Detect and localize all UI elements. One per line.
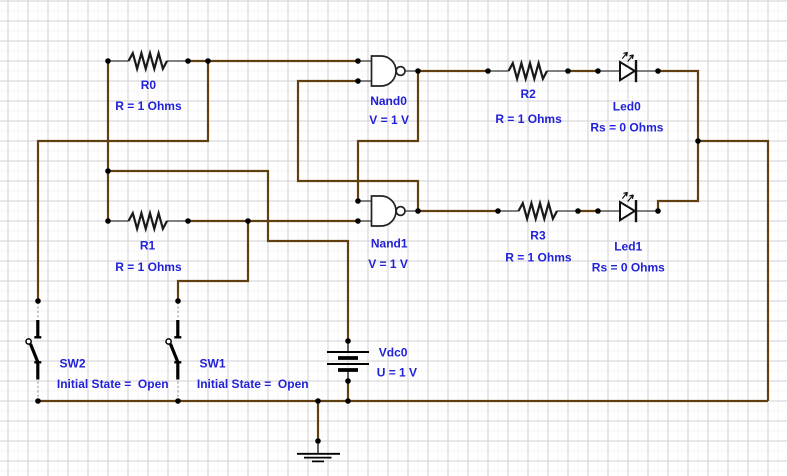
wire R0 right to Nand0 input A bbox=[188, 60, 358, 62]
junction R3 left bbox=[495, 208, 501, 214]
resistor R3 bbox=[498, 203, 578, 219]
svg-text:R = 1 Ohms: R = 1 Ohms bbox=[115, 260, 182, 274]
junction ground node bbox=[315, 438, 321, 444]
resistor R2 bbox=[488, 63, 568, 79]
wire R2 to Led0 bbox=[568, 70, 598, 72]
svg-text:R0: R0 bbox=[141, 78, 157, 92]
nand gate Nand1 bbox=[358, 196, 418, 226]
svg-text:V = 1 V: V = 1 V bbox=[369, 113, 409, 127]
junction Nand0 pin 1 bbox=[355, 58, 361, 64]
junction Led1 cathode bbox=[655, 208, 661, 214]
svg-text:R3: R3 bbox=[530, 228, 546, 242]
svg-text:Initial State = Open: Initial State = Open bbox=[57, 377, 169, 391]
switch SW2 bbox=[26, 302, 41, 399]
junction Nand1 pin 1 bbox=[355, 198, 361, 204]
resistor R1 bbox=[108, 213, 188, 229]
junction Nand1 pin 2 bbox=[355, 218, 361, 224]
junction Led1 anode bbox=[595, 208, 601, 214]
svg-text:R = 1 Ohms: R = 1 Ohms bbox=[505, 251, 572, 265]
svg-text:U = 1 V: U = 1 V bbox=[377, 365, 417, 379]
wire node B branch down to SW1 bbox=[178, 221, 248, 301]
junction V+ tap bbox=[105, 168, 111, 174]
nand gate Nand0 bbox=[358, 56, 418, 86]
node Q1 (Nand1 output) bbox=[415, 208, 421, 214]
junction SW1 bottom / bus bbox=[175, 398, 181, 404]
wire bus to ground symbol bbox=[317, 401, 319, 441]
wire battery negative to bus bbox=[347, 381, 349, 401]
wire R1 right to Nand1 input B bbox=[188, 220, 358, 222]
svg-text:V = 1 V: V = 1 V bbox=[368, 257, 408, 271]
wire Led1 cathode to right junction bbox=[658, 141, 698, 211]
wire Nand0 output to R2 bbox=[418, 70, 488, 72]
battery Vdc0 bbox=[327, 341, 369, 381]
node B (Nand1 input / SW1) bbox=[245, 218, 251, 224]
switch SW1 bbox=[166, 302, 181, 399]
ground bbox=[297, 441, 340, 461]
junction R1 left bbox=[105, 218, 111, 224]
svg-text:Nand0: Nand0 bbox=[370, 94, 407, 108]
junction Led0 anode bbox=[595, 68, 601, 74]
svg-text:Rs = 0 Ohms: Rs = 0 Ohms bbox=[592, 261, 665, 275]
svg-text:Nand1: Nand1 bbox=[371, 236, 408, 250]
wire node A branch down to SW2 bbox=[38, 61, 208, 301]
svg-text:Led1: Led1 bbox=[614, 240, 642, 254]
wire Nand1 output to R3 bbox=[418, 210, 498, 212]
svg-text:R2: R2 bbox=[521, 87, 537, 101]
junction LED common bbox=[695, 138, 701, 144]
junction Vdc0 negative bbox=[345, 378, 351, 384]
wire ground bus bbox=[38, 400, 768, 402]
wire R3 to Led1 bbox=[578, 210, 598, 212]
junction Led0 cathode bbox=[655, 68, 661, 74]
node A (Nand0 input / SW2) bbox=[205, 58, 211, 64]
junction R2 left bbox=[485, 68, 491, 74]
wire Nand0 output cross-couple to Nand1 input bbox=[358, 71, 418, 201]
led Led1 bbox=[598, 192, 658, 222]
junction ground tap bbox=[315, 398, 321, 404]
junction R1 right bbox=[185, 218, 191, 224]
wire R0 left to R1 left bbox=[107, 61, 109, 221]
junction Nand0 pin 2 bbox=[355, 78, 361, 84]
wire V+ node to battery top bbox=[108, 171, 348, 341]
svg-text:R = 1 Ohms: R = 1 Ohms bbox=[495, 112, 562, 126]
junction R0 right bbox=[185, 58, 191, 64]
junction SW1 top bbox=[175, 298, 181, 304]
junction R2 right bbox=[565, 68, 571, 74]
svg-text:Led0: Led0 bbox=[613, 100, 641, 114]
wire Led0 cathode to right junction bbox=[658, 71, 698, 141]
led Led0 bbox=[598, 52, 658, 82]
junction Vdc0 positive bbox=[345, 338, 351, 344]
wire right junction down to ground bus bbox=[698, 141, 768, 401]
svg-text:R1: R1 bbox=[140, 238, 156, 252]
junction Vdc0 / bus bbox=[345, 398, 351, 404]
junction SW2 bottom / bus bbox=[35, 398, 41, 404]
svg-text:SW2: SW2 bbox=[60, 357, 86, 371]
junction R3 right bbox=[575, 208, 581, 214]
svg-text:Initial State = Open: Initial State = Open bbox=[197, 377, 309, 391]
wire Nand1 output cross-couple to Nand0 input bbox=[298, 81, 418, 211]
junction R0 left / node Q2feed bbox=[105, 58, 111, 64]
svg-text:Rs = 0 Ohms: Rs = 0 Ohms bbox=[590, 121, 663, 135]
resistor R0 bbox=[108, 53, 188, 69]
node Q0 (Nand0 output) bbox=[415, 68, 421, 74]
svg-text:R = 1 Ohms: R = 1 Ohms bbox=[115, 99, 182, 113]
junction SW2 top bbox=[35, 298, 41, 304]
svg-text:Vdc0: Vdc0 bbox=[379, 345, 408, 359]
svg-text:SW1: SW1 bbox=[200, 357, 226, 371]
